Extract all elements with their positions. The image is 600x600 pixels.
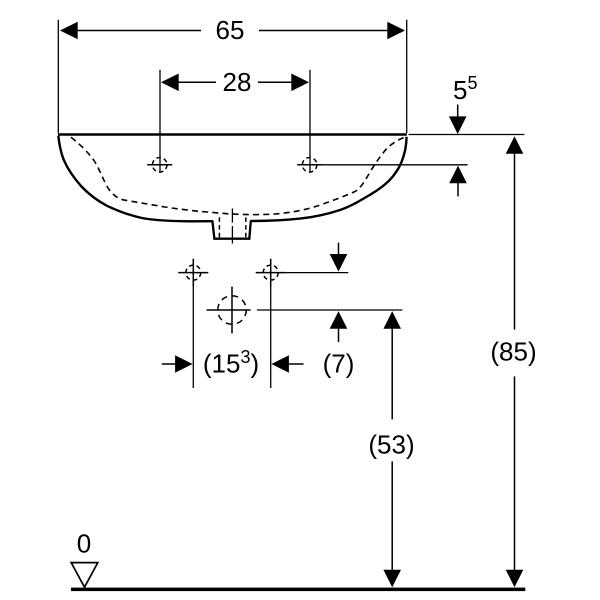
dim 15.3 extension line right [270, 287, 272, 389]
dim 85 line [506, 136, 524, 587]
dim 5.5 lower up arrow [449, 166, 467, 197]
basin outer outline left and bottom [58, 136, 212, 222]
svg-text:(7): (7) [323, 349, 355, 379]
dim 65 extension line right [406, 20, 408, 134]
basin inner rim dashed [71, 137, 405, 214]
dim 15.3 left arrow [162, 355, 193, 373]
basin outer outline right [251, 137, 407, 221]
dim 7 down arrow [330, 243, 348, 272]
mounting bolt hole left [178, 259, 208, 287]
svg-text:(85): (85) [490, 337, 536, 367]
drain centerline [231, 209, 233, 223]
tap hole left [147, 158, 172, 173]
dim 65 line [60, 22, 405, 40]
trap outlet hole [207, 287, 251, 334]
level line at tap holes [322, 164, 468, 166]
dim 65 extension line left [57, 20, 59, 134]
drain hidden edge left dashed [218, 217, 220, 237]
floor line [71, 588, 525, 592]
level line at trap outlet [257, 309, 403, 311]
datum triangle [71, 563, 98, 588]
dim 28 line [161, 74, 309, 92]
svg-text:(53): (53) [368, 430, 414, 460]
svg-text:0: 0 [77, 529, 91, 559]
mounting bolt hole right [256, 259, 286, 287]
dim 28 extension line left [159, 70, 161, 173]
dim 5.5 upper down arrow [449, 105, 467, 135]
level line at bolt holes [286, 272, 349, 274]
dim 28 extension line right [309, 70, 311, 173]
dim 15.3 right arrow [271, 355, 303, 373]
drain hidden edge right dashed [245, 217, 247, 237]
tap hole right [297, 158, 322, 173]
dim 53 line [383, 311, 401, 587]
svg-text:65: 65 [216, 15, 245, 45]
level line at basin top [409, 134, 525, 136]
svg-text:28: 28 [223, 67, 252, 97]
basin top edge [58, 133, 407, 135]
svg-text:(153): (153) [203, 347, 259, 379]
dim 15.3 extension line left [192, 287, 194, 389]
overflow drain box [212, 220, 251, 239]
dim 7 up arrow [330, 311, 348, 342]
